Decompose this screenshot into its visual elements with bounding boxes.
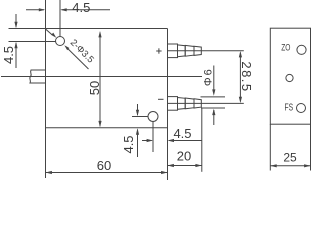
hole center v-line <box>59 0 61 37</box>
svg-text:4.5: 4.5 <box>173 126 191 141</box>
panel ext lines <box>270 124 310 170</box>
dim 4.5 horizontal at hole2 <box>142 139 202 142</box>
leader line 2-phi3.5 <box>64 45 88 69</box>
FS pot hole <box>297 104 306 113</box>
svg-text:50: 50 <box>87 81 102 95</box>
svg-text:2-Φ3.5: 2-Φ3.5 <box>69 37 96 64</box>
dim 28.5 <box>239 51 242 103</box>
svg-text:28.5: 28.5 <box>239 61 254 92</box>
svg-text:60: 60 <box>97 158 111 173</box>
plus sign <box>156 48 161 53</box>
phi6 ext lines <box>201 97 226 108</box>
phi6 dim arrows <box>212 66 215 126</box>
lower port center line ext <box>168 102 244 104</box>
mounting hole top <box>56 37 65 46</box>
lower hose barb fitting <box>168 97 202 111</box>
center line <box>1 76 202 78</box>
leader arrow upper-left <box>46 29 56 38</box>
right panel outline <box>270 28 310 124</box>
svg-text:20: 20 <box>177 149 191 164</box>
left tab <box>30 70 46 83</box>
body top edge with left extension <box>9 28 168 30</box>
svg-text:FS: FS <box>285 103 294 114</box>
hole center h-line <box>9 41 56 43</box>
dim 4.5 top: arrows <box>26 8 110 11</box>
dim 50 vertical <box>98 31 101 127</box>
svg-text:4.5: 4.5 <box>1 46 16 64</box>
middle pot hole <box>286 74 293 81</box>
svg-text:4.5: 4.5 <box>121 135 136 153</box>
dim 60 bottom <box>46 171 168 174</box>
dim 4.5 vertical at hole2 <box>136 104 139 157</box>
dim 25 <box>270 164 310 167</box>
minus sign <box>158 98 164 100</box>
svg-text:ZO: ZO <box>281 42 290 52</box>
hole2 center tick <box>132 116 148 118</box>
svg-text:Φ6: Φ6 <box>203 67 215 86</box>
hole2 center v-ext <box>152 122 154 153</box>
body right edge with extensions <box>167 29 169 181</box>
ZO pot hole <box>297 45 306 54</box>
ext line fitting tip <box>201 108 203 172</box>
dim 4.5 left: arrows <box>14 14 17 68</box>
body left edge with extensions <box>45 0 47 178</box>
mounting hole bottom <box>148 112 158 122</box>
svg-text:4.5: 4.5 <box>72 0 90 15</box>
upper port center line ext <box>168 50 244 52</box>
upper hose barb fitting <box>168 44 202 58</box>
body bottom edge <box>46 127 168 129</box>
svg-text:25: 25 <box>283 151 297 165</box>
dim 20 <box>168 164 202 167</box>
